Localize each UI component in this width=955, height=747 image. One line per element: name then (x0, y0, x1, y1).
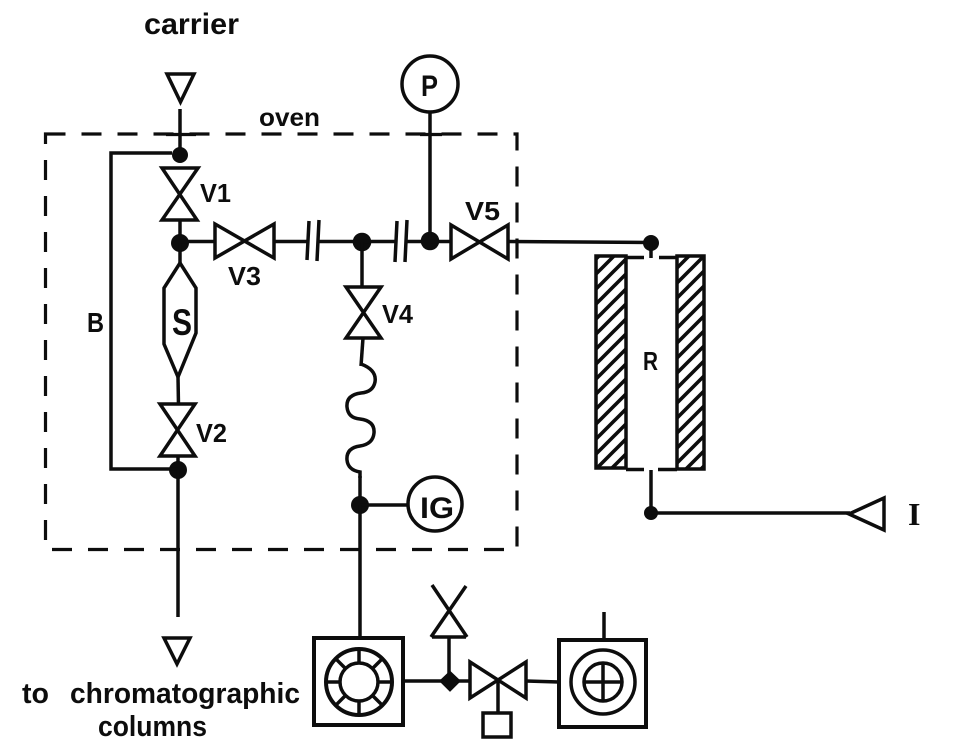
svg-text:V3: V3 (228, 261, 261, 291)
node H (351, 496, 369, 514)
svg-text:R: R (643, 346, 658, 376)
wire node B to sample loop (178, 243, 182, 266)
reactor R channel bottom edge (626, 468, 677, 472)
backing valve (470, 662, 526, 698)
rotary pump inner circle (584, 663, 622, 701)
valve V1 (162, 168, 198, 220)
svg-text:chromatographic: chromatographic (70, 678, 300, 710)
sample loop S (164, 263, 196, 377)
wire V4 to flexible line (361, 338, 363, 366)
carrier inlet arrow (167, 74, 194, 102)
wire node D to union 2 (362, 240, 396, 244)
drain box (483, 713, 511, 737)
pressure gauge P stem (428, 112, 432, 238)
wire flexible line to node H (358, 476, 362, 505)
rotary pump cross (584, 663, 622, 701)
ion gauge IG (408, 477, 462, 531)
wire node C to outlet (176, 470, 180, 617)
valve V4 (346, 287, 381, 338)
wire node H to turbo pump (358, 505, 362, 638)
node J (441, 672, 460, 691)
wire turbo pump to node J (403, 679, 445, 683)
wire node J to backing valve (456, 679, 471, 683)
wire sample loop to V2 (176, 377, 180, 406)
pressure gauge P (402, 56, 458, 112)
turbo pump rotor inner (340, 663, 378, 701)
wire V5 to node F (508, 242, 651, 243)
wire node F to reactor R (649, 243, 653, 258)
wire V3 to union 1 (274, 240, 308, 244)
svg-text:V1: V1 (200, 178, 231, 208)
valve V5 (451, 225, 508, 259)
valve V3 (215, 224, 274, 258)
wire union 1 to node D (319, 240, 362, 244)
svg-text:oven: oven (259, 104, 320, 132)
svg-text:columns: columns (98, 711, 207, 743)
union fitting 2 (395, 220, 407, 262)
wire union 2 to node E (407, 240, 430, 244)
svg-text:IG: IG (420, 492, 454, 525)
reactor R left wall (596, 256, 626, 468)
bypass line B (111, 153, 178, 469)
svg-text:V4: V4 (382, 299, 414, 329)
node B (171, 234, 189, 252)
vent valve (431, 585, 467, 637)
turbo pump rotor outer (326, 649, 392, 715)
oven border dash at gauge stem crossing (420, 133, 442, 136)
svg-text:to: to (22, 678, 49, 710)
svg-text:P: P (421, 70, 438, 103)
rotary pump outer circle (571, 650, 635, 714)
svg-text:V2: V2 (196, 418, 227, 448)
wire V2 to node C (176, 456, 180, 470)
wire backing valve to rotary pump (526, 681, 559, 682)
drain stem (496, 681, 500, 713)
node G (644, 506, 658, 520)
union fitting 1 (307, 220, 319, 261)
wire node E to V5 (430, 240, 452, 244)
valve V2 (160, 404, 195, 456)
wire V1 to node B (178, 220, 182, 243)
node F (643, 235, 659, 251)
wire node G to detector arrow (651, 511, 850, 515)
node C (169, 461, 187, 479)
turbo pump box (314, 638, 403, 725)
node A (172, 147, 188, 163)
reactor R channel top edge (626, 256, 677, 260)
node E (421, 232, 440, 251)
detector arrow I (849, 498, 884, 530)
svg-text:S: S (172, 302, 192, 343)
wire vent valve to node J (447, 637, 451, 675)
wire reactor R to node G (649, 470, 653, 513)
svg-text:carrier: carrier (144, 8, 239, 41)
oven border dash at carrier crossing (166, 133, 196, 136)
reactor R right wall (677, 256, 704, 469)
rotary pump box (559, 640, 646, 727)
svg-text:V5: V5 (465, 196, 500, 226)
wire node H to ion gauge (360, 503, 409, 507)
node D (353, 233, 372, 252)
rotary pump top stem (602, 612, 606, 640)
wire carrier inlet to node A (178, 109, 182, 150)
oven dashed enclosure (46, 134, 518, 550)
turbo pump vanes (326, 649, 392, 715)
svg-text:I: I (908, 496, 920, 532)
outlet arrow (164, 638, 190, 664)
svg-text:B: B (87, 307, 104, 338)
flexible line (347, 364, 375, 478)
wire node D to V4 (360, 242, 364, 288)
wire node B to V3 (180, 240, 215, 244)
